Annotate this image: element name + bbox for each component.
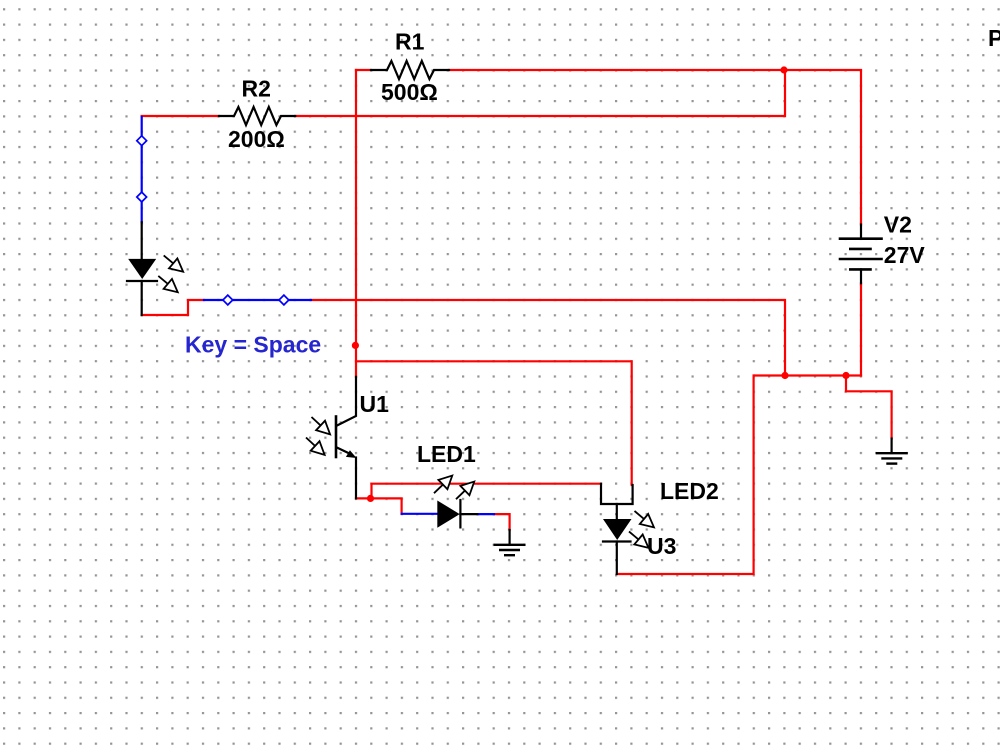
svg-text:V2: V2 [884,212,912,238]
svg-text:200Ω: 200Ω [228,126,285,152]
svg-text:R2: R2 [242,76,271,102]
svg-text:P: P [988,25,1000,51]
svg-text:LED1: LED1 [417,441,476,467]
svg-text:27V: 27V [884,242,926,268]
svg-text:U3: U3 [647,533,676,559]
svg-text:Key = Space: Key = Space [185,332,321,358]
svg-text:R1: R1 [395,29,425,55]
svg-text:500Ω: 500Ω [381,79,438,105]
svg-text:LED2: LED2 [660,478,719,504]
svg-text:U1: U1 [360,391,390,417]
